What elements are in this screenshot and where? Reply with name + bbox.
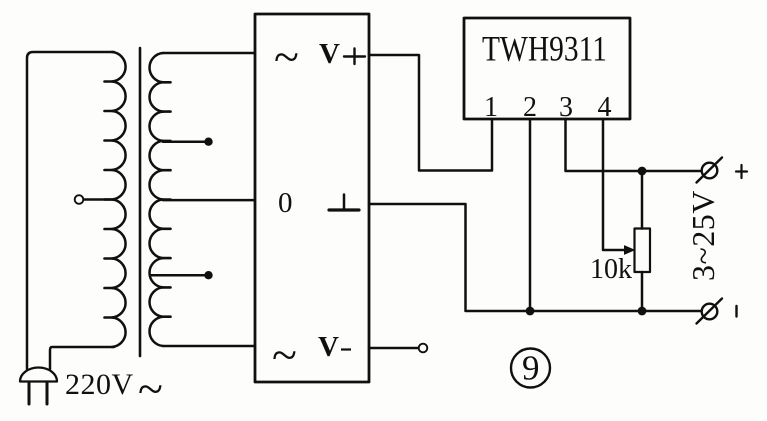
- junction dot pot top: [638, 167, 647, 176]
- rectifier block U2: [255, 14, 369, 382]
- open terminal on V-: [419, 344, 428, 353]
- junction dot pot bottom: [638, 307, 647, 316]
- output terminal +: [702, 163, 718, 179]
- wire secondary bottom to rectifier: [163, 345, 255, 348]
- svg-text:V: V: [318, 331, 339, 363]
- wire pin 3 to + terminal: [566, 119, 702, 171]
- primary tap wire: [84, 198, 112, 201]
- wire V- output: [369, 347, 418, 350]
- primary winding of transformer T1: [112, 52, 126, 347]
- potentiometer RP 10k body: [635, 229, 651, 273]
- ground symbol inside rectifier: [343, 195, 346, 211]
- IC U1 TWH9311 box: [464, 18, 630, 119]
- wire primary top loop: [27, 52, 114, 369]
- primary tap open terminal: [75, 195, 84, 204]
- svg-text:1: 1: [484, 92, 498, 123]
- wire ground from rectifier to bottom bus: [369, 204, 701, 311]
- svg-text:V: V: [319, 38, 340, 70]
- svg-text:~: ~: [272, 329, 297, 380]
- svg-text:~: ~: [274, 31, 299, 82]
- svg-text:3~25V: 3~25V: [685, 190, 721, 281]
- pot bottom lead: [641, 272, 644, 311]
- wire pin 4 to wiper: [603, 119, 627, 250]
- wire V+ from rectifier to pin 1: [369, 55, 492, 171]
- svg-text:~: ~: [138, 363, 163, 414]
- transformer core: [139, 48, 142, 356]
- svg-text:9: 9: [522, 349, 540, 388]
- secondary winding of transformer T1: [150, 53, 163, 346]
- wire secondary tap 1: [163, 140, 205, 143]
- label + (rotated) near + terminal: [736, 165, 747, 178]
- svg-text:220V: 220V: [65, 368, 134, 401]
- secondary tap dot 2: [204, 271, 212, 279]
- svg-text:0: 0: [278, 187, 293, 219]
- minus label (rotated): [735, 306, 737, 317]
- wire secondary center 0 to rectifier: [163, 199, 255, 202]
- svg-text:3: 3: [559, 92, 573, 123]
- wire secondary tap 2: [151, 274, 205, 277]
- wire pin 2: [529, 119, 532, 311]
- secondary tap dot 1: [204, 138, 212, 146]
- plug P1: [20, 368, 57, 382]
- pot top lead: [641, 171, 644, 229]
- svg-text:2: 2: [523, 92, 537, 123]
- svg-text:TWH9311: TWH9311: [482, 29, 607, 69]
- output terminal -: [702, 304, 718, 320]
- wire secondary top to rectifier: [163, 52, 255, 55]
- figure number 9 circle: [511, 349, 550, 388]
- svg-text:10k: 10k: [590, 254, 632, 285]
- wiper arrowhead: [625, 246, 635, 254]
- svg-text:4: 4: [598, 92, 612, 123]
- wire primary bottom: [50, 347, 114, 369]
- junction dot pin2/bus: [526, 307, 535, 316]
